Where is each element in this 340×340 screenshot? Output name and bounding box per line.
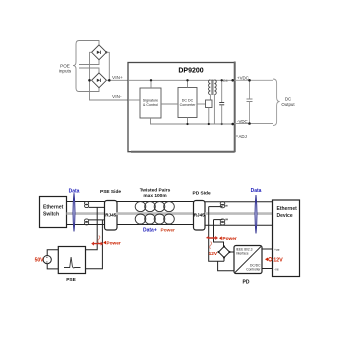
node dot S&C top: [150, 79, 152, 81]
node dot DCDC top: [186, 79, 188, 81]
svg-text:Ethernet: Ethernet: [277, 206, 298, 212]
wire pair2 A: [79, 68, 99, 73]
svg-text:12V: 12V: [209, 251, 218, 257]
svg-text:ADJ: ADJ: [239, 134, 247, 139]
Ethernet Device box: [273, 200, 300, 277]
50V top lead: [47, 250, 58, 256]
DC Output brace: [273, 79, 280, 126]
gray middle pair left: [67, 212, 106, 215]
output capacitor C5: [247, 80, 253, 123]
svg-text:Data+: Data+: [143, 228, 157, 234]
pair conductor to RJ45 bottom: [89, 219, 105, 221]
svg-text:Data: Data: [251, 188, 262, 194]
gray middle pair center: [117, 212, 195, 215]
node dot C4 bottom: [221, 123, 223, 125]
svg-text:RJ45: RJ45: [105, 212, 116, 217]
svg-text:12V: 12V: [273, 258, 283, 264]
svg-text:Power: Power: [161, 228, 176, 234]
opto bottom lead: [208, 108, 210, 125]
Power label PSE: [103, 240, 121, 246]
wire DCDC to opto: [197, 103, 206, 105]
svg-text:PSE Side: PSE Side: [100, 189, 121, 195]
twist glyph right bottom: [220, 219, 225, 225]
wire bottom pair right: [205, 224, 273, 226]
data arrow spindle right: [255, 195, 257, 234]
Power label PD: [219, 236, 237, 242]
opto coupler box U3: [206, 100, 213, 108]
svg-text:50V: 50V: [35, 257, 45, 263]
wire top pair left: [67, 201, 106, 203]
PD +ve output wire: [262, 248, 273, 250]
POE inputs brace: [73, 41, 79, 92]
DCDC bottom stub: [187, 118, 189, 125]
+VDC output wire: [235, 79, 274, 81]
node dot C5 bottom: [248, 122, 251, 125]
node dot C5 top: [248, 79, 251, 82]
Ethernet Switch box: [40, 197, 67, 228]
svg-text:Signature: Signature: [143, 98, 158, 102]
svg-text:+VDC: +VDC: [237, 75, 249, 80]
data arrow spindle left: [73, 193, 75, 231]
DP9200 box: [128, 62, 235, 153]
negative bus wire: [90, 52, 129, 100]
svg-text:-ve: -ve: [274, 268, 279, 272]
S&C top stub: [150, 80, 152, 88]
svg-text:Ethernet: Ethernet: [43, 205, 64, 211]
bridge rectifier D1: [92, 45, 108, 60]
pin mark top: [225, 205, 227, 207]
bridge output wire to PD box: [230, 251, 235, 253]
wire top pair right: [205, 201, 273, 203]
svg-text:DP9200: DP9200: [178, 68, 203, 75]
wire pair1 B: [79, 60, 99, 65]
node dot neg bus: [88, 79, 91, 82]
node dot C4 top: [221, 79, 223, 81]
svg-text:Power: Power: [106, 240, 121, 246]
pair conductor right top: [209, 206, 223, 208]
svg-text:Switch: Switch: [43, 212, 59, 218]
S&C bottom stub: [151, 118, 234, 124]
transformer primary bottom lead into opto: [209, 95, 211, 100]
svg-text:Converter: Converter: [180, 103, 197, 107]
RJ45 jack right: [194, 201, 206, 231]
svg-text:& Control: & Control: [143, 103, 158, 107]
12V output label red: [265, 258, 283, 264]
wire bottom center to chain: [117, 224, 195, 226]
PSE power tap wire B: [86, 220, 103, 269]
pair conductor right bottom: [214, 219, 223, 221]
svg-text:PSE: PSE: [66, 277, 76, 283]
wire S&C to DCDC: [161, 103, 178, 105]
wire top center to chain: [117, 201, 195, 203]
50V source V1: [35, 256, 52, 264]
pair conductor to RJ45 top: [89, 206, 105, 208]
wire to PD box lower input: [218, 261, 234, 271]
pin mark bottom: [225, 219, 228, 221]
svg-text:Controller: Controller: [246, 268, 261, 272]
transformer secondary top lead: [213, 79, 215, 82]
positive bus wire: [106, 52, 109, 80]
DC-DC Converter box U2: [178, 88, 197, 118]
50V bottom lead: [47, 264, 58, 269]
node dot +VDC at edge: [231, 79, 234, 82]
node dot DCDC bottom: [186, 123, 188, 125]
PD power tap wire B: [214, 220, 224, 247]
cable braid bottom pair: [135, 214, 174, 224]
svg-text:C4: C4: [223, 79, 228, 83]
svg-text:Interface: Interface: [236, 252, 249, 256]
wire pair2 B: [79, 88, 99, 92]
Data+ Power label center: [143, 228, 175, 234]
VIN+ rail inside: [128, 79, 233, 81]
red squiggle PSE: [98, 236, 100, 243]
DCDC top stub: [187, 80, 189, 87]
svg-text:max 100m: max 100m: [143, 193, 166, 199]
capacitor C4: [219, 80, 224, 124]
svg-text:inputs: inputs: [59, 69, 72, 74]
twist glyph left bottom: [85, 219, 89, 225]
gray middle pair right: [205, 212, 273, 215]
bridge rectifier PD: [217, 245, 230, 258]
svg-text:Twisted Pairs: Twisted Pairs: [140, 188, 171, 194]
twist glyph right top: [220, 202, 225, 208]
svg-text:+ve: +ve: [274, 248, 280, 252]
VIN+ wire: [106, 79, 128, 81]
svg-text:RJ45: RJ45: [194, 212, 205, 217]
VIN- wire into S&C: [128, 99, 140, 101]
svg-text:Device: Device: [277, 213, 293, 219]
twist glyph left top: [85, 201, 89, 207]
transformer primary top lead: [209, 79, 211, 82]
svg-text:DC: DC: [285, 97, 291, 102]
svg-text:VIN+: VIN+: [112, 75, 123, 81]
red power flow arrow PSE: [91, 242, 103, 246]
node dot -VDC at edge: [231, 123, 234, 126]
wire pair1 A: [79, 41, 99, 45]
svg-text:VIN-: VIN-: [112, 94, 122, 100]
-VDC rail: [214, 123, 233, 125]
svg-text:DC DC: DC DC: [182, 98, 194, 102]
Signature & Control box U1: [140, 88, 161, 118]
transformer T1: [209, 80, 217, 96]
node dot opto bottom: [208, 123, 210, 125]
svg-text:PD: PD: [243, 279, 250, 285]
RJ45 jack left: [105, 201, 118, 231]
node dot pos bus: [108, 79, 111, 82]
PSE power tap wire A: [86, 207, 98, 249]
wire bottom pair left: [67, 224, 106, 226]
transformer secondary bottom lead: [213, 95, 215, 124]
-VDC output wire: [235, 123, 274, 125]
bridge bottom wire: [223, 258, 225, 262]
svg-text:Power: Power: [222, 236, 237, 242]
red power flow arrow PD: [206, 236, 218, 240]
PD -ve output wire: [262, 268, 273, 270]
bridge rectifier D2: [92, 73, 107, 88]
svg-text:Output: Output: [281, 102, 295, 107]
cable braid top pair: [135, 202, 174, 212]
PD box: [234, 246, 262, 274]
red squiggle PD: [210, 242, 212, 249]
ADJ stub: [235, 135, 239, 137]
svg-text:PD Side: PD Side: [193, 190, 211, 196]
PD power tap wire A: [209, 207, 224, 262]
PSE box: [58, 247, 85, 274]
